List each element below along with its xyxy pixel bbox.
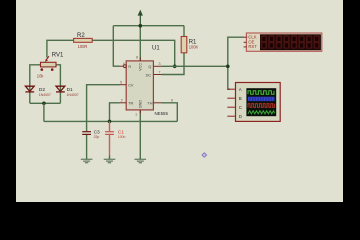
svg-text:DC: DC [146, 73, 152, 77]
wire: VCC top rail [113, 25, 184, 27]
capacitor C3 [82, 129, 100, 139]
wire: C1 leads (highlighted red) [109, 121, 111, 155]
node: junction on Q line [173, 65, 177, 69]
node: Q corner junction [226, 65, 230, 69]
capacitor C1 (highlighted) [105, 129, 125, 139]
wire: TH pin6 riser [162, 103, 178, 122]
node: diode bus junction [42, 102, 46, 106]
svg-text:B: B [239, 96, 242, 101]
svg-text:U1: U1 [152, 46, 160, 52]
scope input labels [239, 87, 242, 119]
svg-text:7: 7 [158, 69, 160, 74]
wire: R1 bottom to DC pin7 [162, 53, 185, 75]
svg-text:1N4007: 1N4007 [66, 93, 78, 97]
ground below C1 [104, 159, 116, 163]
svg-text:100n: 100n [118, 135, 126, 139]
ground below 555 pin1 [135, 159, 147, 163]
wire: pin8 VCC drop to 555 top [139, 26, 141, 62]
svg-text:1N4007: 1N4007 [39, 93, 51, 97]
potentiometer RV1 [37, 52, 64, 78]
U1 pin labels [128, 63, 153, 109]
svg-text:R2: R2 [77, 33, 85, 39]
wire: C1 ground tail [109, 156, 111, 160]
oscilloscope component [236, 83, 281, 122]
left letterbox pillar [0, 0, 16, 202]
wire: RV1 wiper to R2 to Q-line [47, 40, 175, 66]
wire: up to display CLK [228, 37, 244, 66]
wire: Q output pin3 line [162, 65, 228, 67]
svg-text:100K: 100K [189, 44, 199, 49]
right letterbox pillar [343, 0, 360, 202]
U1 pin stubs [120, 58, 162, 114]
svg-text:Q: Q [148, 65, 151, 69]
svg-text:100R: 100R [78, 44, 88, 49]
scope pin stubs [227, 89, 235, 116]
svg-text:C: C [239, 105, 242, 110]
svg-text:3: 3 [158, 61, 160, 66]
power VCC arrow [138, 10, 143, 26]
svg-text:1: 1 [135, 112, 137, 117]
wire: rail right drop to R1 top [183, 26, 185, 37]
diode D2 [25, 86, 51, 97]
wire: diode bottom bus [30, 102, 61, 104]
diode D1 [56, 86, 79, 97]
wire: TR pin2 to bottom rail [110, 103, 120, 122]
svg-text:6: 6 [171, 97, 173, 102]
svg-text:2: 2 [121, 97, 123, 102]
svg-text:VCC: VCC [139, 63, 143, 71]
node: rail junction [139, 24, 143, 28]
wire: down to scope input A [228, 66, 230, 89]
U1 R pin inversion bubble [124, 65, 127, 68]
scope trace A (green square wave) [248, 91, 274, 95]
node: bottom rail junction at C1 [108, 120, 112, 124]
svg-text:NE555: NE555 [155, 111, 169, 116]
display pin stubs [244, 37, 247, 47]
svg-text:TH: TH [147, 102, 152, 106]
U1 pin numbers [120, 54, 173, 116]
wire: 555 pin1 GND drop [139, 110, 141, 159]
scope trace C (red square wave) [248, 104, 274, 108]
node marker (purple origin diamond) [202, 153, 207, 158]
wire: rail left drop to pin4 R [113, 26, 119, 66]
7-segment display module [246, 33, 321, 51]
op-amp U1 555 timer body [126, 46, 168, 116]
svg-text:RST: RST [248, 44, 257, 49]
ground below C3 [81, 159, 93, 163]
wire: pot left leg down through D2 [30, 65, 41, 104]
svg-text:A: A [239, 87, 242, 92]
wire: bottom rail TR/TH net [44, 120, 177, 122]
scope trace B (blue band) [248, 97, 275, 102]
resistor R1 [181, 37, 198, 53]
svg-text:8: 8 [136, 54, 138, 59]
svg-text:GND: GND [139, 100, 143, 109]
scope trace D (green triangle wave) [248, 111, 275, 114]
svg-text:5: 5 [120, 79, 122, 84]
display digit cells [261, 35, 320, 48]
wire: CV pin5 to C3 [87, 85, 120, 132]
svg-text:22p: 22p [94, 135, 100, 139]
schematic background sheet [16, 0, 343, 202]
svg-text:TR: TR [128, 102, 133, 106]
svg-text:R: R [128, 65, 131, 69]
resistor R2 [74, 33, 93, 49]
wire: C3 to ground [86, 135, 88, 160]
svg-text:RV1: RV1 [52, 52, 64, 58]
svg-text:CV: CV [128, 84, 134, 88]
wire: pot right leg down through D1 [56, 65, 60, 104]
svg-text:10k: 10k [37, 73, 45, 78]
display pin labels [247, 34, 258, 49]
wire: junction drop to bottom rail [43, 103, 45, 121]
svg-text:D: D [239, 114, 242, 119]
